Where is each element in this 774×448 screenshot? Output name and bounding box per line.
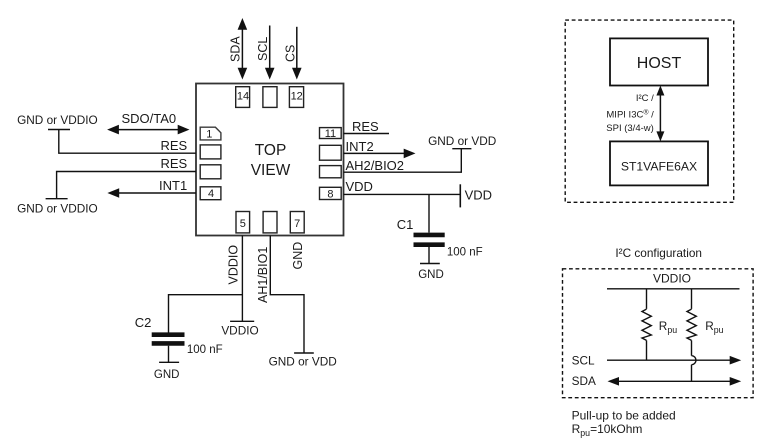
interface label SPI — [606, 123, 654, 134]
GND or VDDIO label (top left) — [17, 113, 98, 127]
SCL label — [256, 37, 270, 61]
VDD label (pin 8) — [346, 179, 373, 194]
svg-text:SCL: SCL — [256, 37, 270, 61]
capacitor C1 — [414, 235, 445, 264]
svg-text:AH1/BIO1: AH1/BIO1 — [256, 247, 270, 303]
wire: RES pin 3 to bottom terminal — [57, 172, 196, 199]
AH2/BIO2 label — [346, 158, 405, 173]
CS label — [284, 45, 298, 62]
I2C config dashed border — [563, 269, 754, 398]
pin 1 marker box — [200, 127, 221, 140]
capacitor C2 — [152, 335, 185, 363]
svg-text:GND: GND — [291, 242, 305, 270]
pin 7 box — [290, 212, 304, 233]
wire: branch to C2 — [169, 295, 243, 333]
pull-up note line 1 — [572, 409, 676, 423]
IC label TOP VIEW — [251, 142, 291, 179]
GND or VDD terminal bar (bottom) — [294, 352, 314, 354]
svg-text:INT2: INT2 — [346, 139, 374, 154]
IC U1 package outline (TOP VIEW) — [196, 84, 344, 236]
svg-text:8: 8 — [327, 189, 333, 201]
wire hop: Rpu2 over SCL — [692, 356, 697, 382]
pin 9 box — [320, 166, 342, 178]
svg-text:GND or VDD: GND or VDD — [428, 134, 496, 148]
svg-text:100 nF: 100 nF — [447, 246, 483, 258]
GND rotated label (pin 7) — [291, 242, 305, 270]
SCL label — [572, 354, 595, 368]
svg-text:14: 14 — [237, 91, 249, 103]
svg-text:VDD: VDD — [465, 187, 492, 202]
svg-text:TOP: TOP — [255, 142, 287, 159]
pin 5 box — [236, 212, 250, 233]
INT1 output arrow — [107, 188, 196, 198]
svg-text:ST1VAFE6AX: ST1VAFE6AX — [621, 160, 697, 174]
VDDIO terminal label — [221, 324, 258, 338]
pin 10 box — [320, 145, 342, 160]
svg-text:5: 5 — [240, 218, 246, 230]
svg-text:RES: RES — [160, 138, 187, 153]
ST1VAFE6AX box — [610, 141, 708, 185]
wire: pin 6 AH1/BIO1 to GND or VDD terminal — [270, 236, 304, 354]
INT2 output arrow — [344, 149, 416, 159]
svg-text:VDDIO: VDDIO — [227, 245, 241, 285]
wire: VDD junction down to C1 — [428, 194, 430, 232]
C2 value label — [187, 344, 223, 356]
AH1/BIO1 rotated label (pin 6) — [256, 247, 270, 303]
C1 value label — [447, 246, 483, 258]
svg-text:VIEW: VIEW — [251, 162, 291, 179]
svg-text:INT1: INT1 — [159, 178, 187, 193]
Rpu label 1 — [659, 319, 677, 335]
interface label I2C — [636, 93, 654, 104]
pin 3 box — [200, 165, 221, 179]
RES stub wire (pin 11) — [344, 133, 390, 135]
C1 label — [397, 217, 414, 232]
pin 8 box — [320, 187, 342, 200]
svg-text:Pull-up to be added: Pull-up to be added — [572, 409, 676, 423]
svg-text:GND: GND — [154, 369, 180, 381]
svg-text:1: 1 — [206, 129, 212, 141]
VDDIO terminal bar (below pin 5) — [230, 320, 254, 322]
svg-text:GND or VDDIO: GND or VDDIO — [17, 113, 98, 127]
svg-text:C1: C1 — [397, 217, 414, 232]
VDDIO rail — [607, 288, 740, 290]
svg-text:C2: C2 — [135, 315, 152, 330]
RES label (pin 11) — [352, 119, 379, 134]
Rpu label 2 — [705, 319, 723, 335]
svg-text:RES: RES — [160, 156, 187, 171]
SDA label — [229, 36, 243, 62]
svg-text:VDDIO: VDDIO — [653, 272, 691, 286]
svg-text:4: 4 — [208, 188, 214, 200]
CS signal arrow — [292, 27, 302, 80]
pin 2 box — [200, 145, 221, 159]
GND or VDD label (right) — [428, 134, 496, 148]
svg-text:SPI (3/4-w): SPI (3/4-w) — [606, 123, 654, 134]
wire: terminal to RES pin 2 — [59, 130, 196, 154]
pin 4 box — [200, 187, 221, 200]
C1 GND label — [418, 269, 444, 281]
VDDIO rail label — [653, 272, 691, 286]
RES label (pin 2) — [160, 138, 187, 153]
C2 label — [135, 315, 152, 330]
HOST box — [610, 38, 708, 85]
VDDIO rotated label (pin 5) — [227, 245, 241, 285]
pin 14 box — [236, 87, 250, 108]
pin 6 box — [263, 212, 277, 233]
SDA line with double arrow — [608, 377, 742, 386]
GND or VDD label (bottom) — [269, 354, 337, 368]
svg-text:SDA: SDA — [229, 36, 243, 62]
svg-text:7: 7 — [294, 218, 300, 230]
C2 GND label — [154, 369, 180, 381]
svg-text:12: 12 — [291, 91, 303, 103]
C2 ground bar — [159, 361, 179, 363]
SDO/TA0 label — [122, 111, 177, 126]
resistor Rpu 1 — [642, 289, 651, 360]
pin 13 box — [263, 87, 277, 108]
svg-text:HOST: HOST — [637, 55, 682, 72]
SDO/TA0 bidirectional arrow — [107, 125, 189, 135]
VDD rail bar — [459, 184, 461, 207]
svg-text:SCL: SCL — [572, 354, 595, 368]
svg-text:I²C configuration: I²C configuration — [615, 246, 702, 260]
pull-up note line 2 — [572, 422, 643, 438]
wire: VDD pin 8 to VDD rail — [344, 193, 461, 195]
SCL line with arrow — [607, 356, 741, 365]
pin 12 box — [289, 87, 303, 108]
RES label (pin 3) — [160, 156, 187, 171]
svg-text:CS: CS — [284, 45, 298, 62]
svg-text:VDDIO: VDDIO — [221, 324, 258, 338]
SDA signal arrow (bidirectional) — [238, 18, 248, 80]
wire: pin 5 VDDIO down to terminal — [241, 236, 243, 322]
host interface bidirectional arrow — [656, 86, 664, 142]
svg-text:11: 11 — [325, 128, 336, 140]
pin 11 box — [320, 128, 342, 140]
I2C configuration title — [615, 246, 702, 260]
interface label MIPI I3C — [606, 109, 654, 121]
svg-text:SDO/TA0: SDO/TA0 — [122, 111, 177, 126]
svg-text:AH2/BIO2: AH2/BIO2 — [346, 158, 405, 173]
SDA label — [572, 374, 596, 388]
svg-text:GND or VDD: GND or VDD — [269, 354, 337, 368]
svg-text:VDD: VDD — [346, 179, 373, 194]
svg-text:I²C /: I²C / — [636, 93, 654, 104]
GND or VDDIO terminal bar (bottom left) — [46, 198, 68, 200]
wire: AH2/BIO2 to GND or VDD terminal — [344, 149, 462, 173]
GND or VDDIO label (bottom left) — [17, 202, 98, 216]
GND or VDD terminal bar (right) — [452, 148, 471, 150]
svg-text:RES: RES — [352, 119, 379, 134]
resistor Rpu 2 — [687, 289, 696, 356]
SCL signal arrow — [265, 26, 275, 80]
INT1 label — [159, 178, 187, 193]
svg-text:100 nF: 100 nF — [187, 344, 223, 356]
GND or VDDIO terminal bar (top left) — [48, 129, 70, 131]
INT2 label — [346, 139, 374, 154]
VDD rail label — [465, 187, 492, 202]
svg-text:GND or VDDIO: GND or VDDIO — [17, 202, 98, 216]
host block dashed border — [565, 20, 734, 202]
svg-text:GND: GND — [418, 269, 444, 281]
C1 ground bar — [420, 263, 440, 265]
svg-text:SDA: SDA — [572, 374, 596, 388]
